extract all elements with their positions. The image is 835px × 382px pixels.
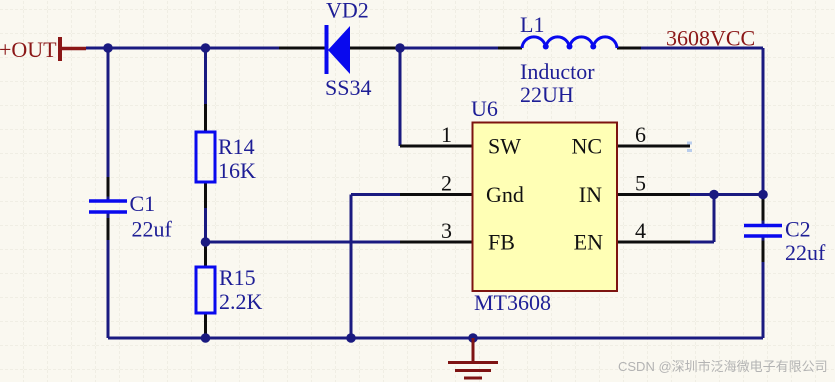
- svg-text:3608VCC: 3608VCC: [666, 26, 755, 51]
- svg-text:NC: NC: [571, 134, 602, 159]
- svg-text:Inductor: Inductor: [520, 59, 595, 84]
- svg-text:FB: FB: [488, 230, 515, 255]
- svg-text:IN: IN: [579, 182, 602, 207]
- svg-text:CSDN @深圳市泛海微电子有限公司: CSDN @深圳市泛海微电子有限公司: [618, 359, 828, 374]
- svg-text:VD2: VD2: [326, 0, 369, 23]
- svg-text:C2: C2: [785, 217, 811, 242]
- svg-text:5: 5: [635, 171, 646, 196]
- svg-text:22uf: 22uf: [132, 217, 173, 242]
- svg-text:1: 1: [441, 122, 452, 147]
- svg-text:4: 4: [635, 218, 646, 243]
- svg-text:C1: C1: [130, 191, 156, 216]
- svg-text:6: 6: [635, 122, 646, 147]
- svg-text:L1: L1: [520, 12, 544, 37]
- svg-text:R15: R15: [219, 265, 256, 290]
- svg-text:2.2K: 2.2K: [219, 289, 263, 314]
- svg-text:MT3608: MT3608: [474, 290, 551, 315]
- svg-text:Gnd: Gnd: [486, 182, 524, 207]
- svg-text:+OUT: +OUT: [0, 37, 57, 62]
- svg-text:EN: EN: [574, 230, 603, 255]
- svg-text:22UH: 22UH: [520, 82, 574, 107]
- svg-text:2: 2: [441, 171, 452, 196]
- svg-text:22uf: 22uf: [785, 240, 826, 265]
- svg-text:SS34: SS34: [325, 75, 371, 100]
- svg-text:SW: SW: [488, 134, 521, 159]
- svg-text:3: 3: [441, 218, 452, 243]
- svg-text:16K: 16K: [218, 158, 256, 183]
- svg-text:U6: U6: [471, 96, 498, 121]
- svg-text:R14: R14: [218, 134, 255, 159]
